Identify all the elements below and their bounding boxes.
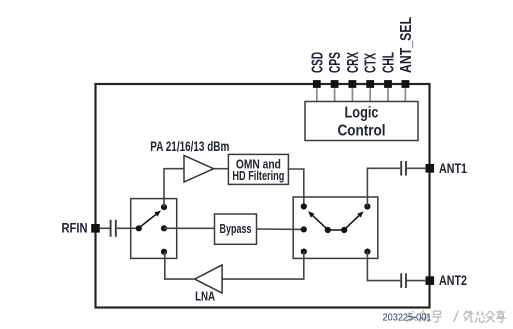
switch SW1 body (131, 199, 177, 259)
switch SW1 TX contact (161, 204, 167, 210)
pin CHL (381, 52, 398, 88)
wire SW2 to C3 (367, 252, 400, 281)
device outline U1 (96, 84, 430, 308)
logic control block (305, 102, 418, 141)
capacitor C1 (111, 220, 116, 237)
switch SW2 arm arrow left (308, 211, 326, 228)
svg-text:HD Filtering: HD Filtering (232, 168, 284, 183)
wire bypass block to SW2 (257, 228, 304, 230)
switch SW2 arm arrow right (346, 211, 364, 228)
svg-text:ANT2: ANT2 (439, 272, 467, 288)
pin CTX (363, 53, 380, 88)
switch SW2 pole B contact (341, 227, 347, 233)
wire PA output to OMN (214, 168, 229, 170)
wire SW2 to LNA input (222, 252, 304, 280)
wire OMN to switch SW2 (288, 169, 303, 207)
wire LNA output to SW1 (165, 252, 195, 279)
svg-text:CPS: CPS (327, 52, 344, 73)
switch SW2 pole A contact (325, 227, 331, 233)
wire SW2 to C2 (367, 168, 400, 206)
amplifier PA (184, 155, 214, 182)
pin CRX (345, 52, 362, 88)
svg-text:Bypass: Bypass (220, 222, 252, 236)
wire SW2 pole link (328, 229, 344, 231)
switch SW1 RX contact (161, 249, 167, 255)
pin ANT2 (426, 272, 468, 288)
svg-text:CRX: CRX (345, 52, 362, 73)
pin CSD (309, 52, 326, 88)
svg-text:LNA: LNA (195, 289, 215, 303)
switch SW2 ANT1 contact (364, 203, 370, 209)
switch SW2 bypass contact (301, 226, 307, 232)
svg-text:203225-001: 203225-001 (383, 313, 432, 324)
svg-text:ANT_SEL: ANT_SEL (398, 17, 415, 73)
wire ANT_SEL to logic (404, 88, 406, 101)
switch SW2 body (293, 197, 378, 258)
svg-text:Control: Control (338, 122, 386, 139)
filter OMN block (228, 154, 288, 184)
wire C3 to ANT2 (407, 280, 425, 282)
wire C1 to switch SW1 (117, 227, 139, 229)
svg-text:RFIN: RFIN (62, 220, 88, 236)
switch SW2 TX contact (301, 203, 307, 209)
svg-text:CTX: CTX (363, 53, 380, 73)
wire RFIN to C1 (100, 227, 110, 229)
pin ANT_SEL (398, 17, 415, 88)
amplifier LNA (195, 265, 222, 293)
svg-text:Logic: Logic (345, 104, 379, 121)
wire CSD to logic (316, 88, 318, 101)
switch SW1 arm arrow (141, 211, 162, 227)
capacitor C2 (401, 161, 406, 176)
svg-text:CSD: CSD (309, 52, 326, 73)
switch SW2 ANT2 contact (364, 249, 370, 255)
switch SW1 common contact (136, 225, 142, 231)
wire SW1 to bypass block (164, 227, 215, 229)
pin ANT1 (426, 160, 468, 176)
capacitor C3 (401, 273, 406, 288)
pin CPS (327, 52, 344, 88)
wire CTX to logic (369, 88, 371, 101)
switch SW2 RX contact (301, 249, 307, 255)
svg-text:PA 21/16/13 dBm: PA 21/16/13 dBm (150, 138, 229, 154)
svg-text:CHL: CHL (381, 52, 398, 73)
wire CRX to logic (351, 88, 353, 101)
wire CPS to logic (334, 88, 336, 101)
bypass block (215, 214, 257, 244)
switch SW1 bypass contact (161, 225, 167, 231)
svg-text:ANT1: ANT1 (439, 160, 467, 176)
watermark (407, 310, 506, 322)
wire SW1 to PA input (164, 169, 184, 207)
wire CHL to logic (387, 88, 389, 101)
wire C2 to ANT1 (407, 167, 425, 169)
pin RFIN (62, 220, 100, 236)
